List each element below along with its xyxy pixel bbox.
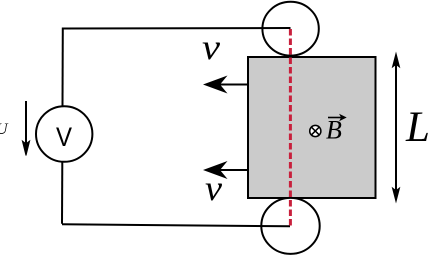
svg-text:V: V	[56, 121, 73, 152]
svg-text:B: B	[326, 116, 342, 145]
svg-text:v: v	[202, 27, 220, 67]
svg-text:L: L	[405, 104, 429, 151]
svg-text:v: v	[205, 168, 222, 208]
